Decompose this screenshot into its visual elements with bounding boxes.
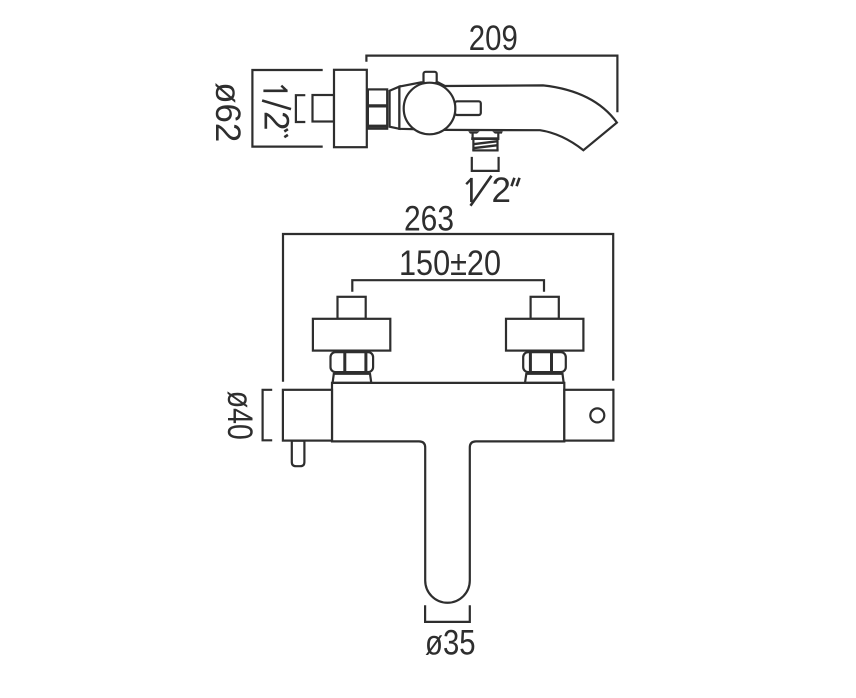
valve bar body with downspout [332,383,564,603]
outlet neck sides [472,133,474,138]
dimension 1/2 inch outlet bracket [472,157,499,171]
dimension 150±20 line [352,280,544,292]
dimension ø35 bracket [425,605,470,622]
svg-text:2: 2 [492,171,511,210]
svg-text:150±20: 150±20 [399,244,501,283]
lever handle (side) [455,101,481,115]
dimension ø40 text (rotated) [220,391,259,440]
right union flange [506,319,583,351]
svg-text:2: 2 [256,111,295,130]
dimension ø62 text (rotated) [208,82,247,142]
valve body circle [404,83,456,135]
svg-text:ø40: ø40 [220,391,259,440]
faucet body and spout outline [399,82,617,150]
end cap screw hole [590,408,604,422]
dimension 209 line [366,56,617,113]
dimension 263 line [283,234,613,382]
taper cone [390,87,400,129]
left union pipe [338,297,366,319]
dimension ø62 bracket [252,70,322,147]
right union pipe [531,297,559,319]
dimension ø40 bracket [263,390,273,441]
svg-text:263: 263 [404,200,454,239]
outlet flange wedges [468,131,480,133]
outlet thread block [472,140,474,151]
svg-text:ø35: ø35 [425,623,476,662]
left end cap [283,390,332,441]
left union nut [331,352,374,372]
inlet pipe stub [313,95,335,122]
left union collar [333,374,372,383]
right end cap [564,390,613,441]
outlet collar band [471,137,499,140]
dimension 1/2 inch outlet text [470,178,473,202]
wall flange plate [334,70,367,147]
dimension 1/2 inch inlet text (rotated) [263,89,287,92]
diverter knob [424,72,437,84]
svg-text:ø62: ø62 [208,82,247,142]
connection nut (side view) [368,89,387,128]
right union collar [525,374,564,383]
dimension 1/2 inch inlet bracket [296,95,305,122]
temperature stop nub [292,441,305,467]
svg-text:209: 209 [469,19,518,58]
right union nut [523,352,566,372]
left union flange [313,319,390,351]
